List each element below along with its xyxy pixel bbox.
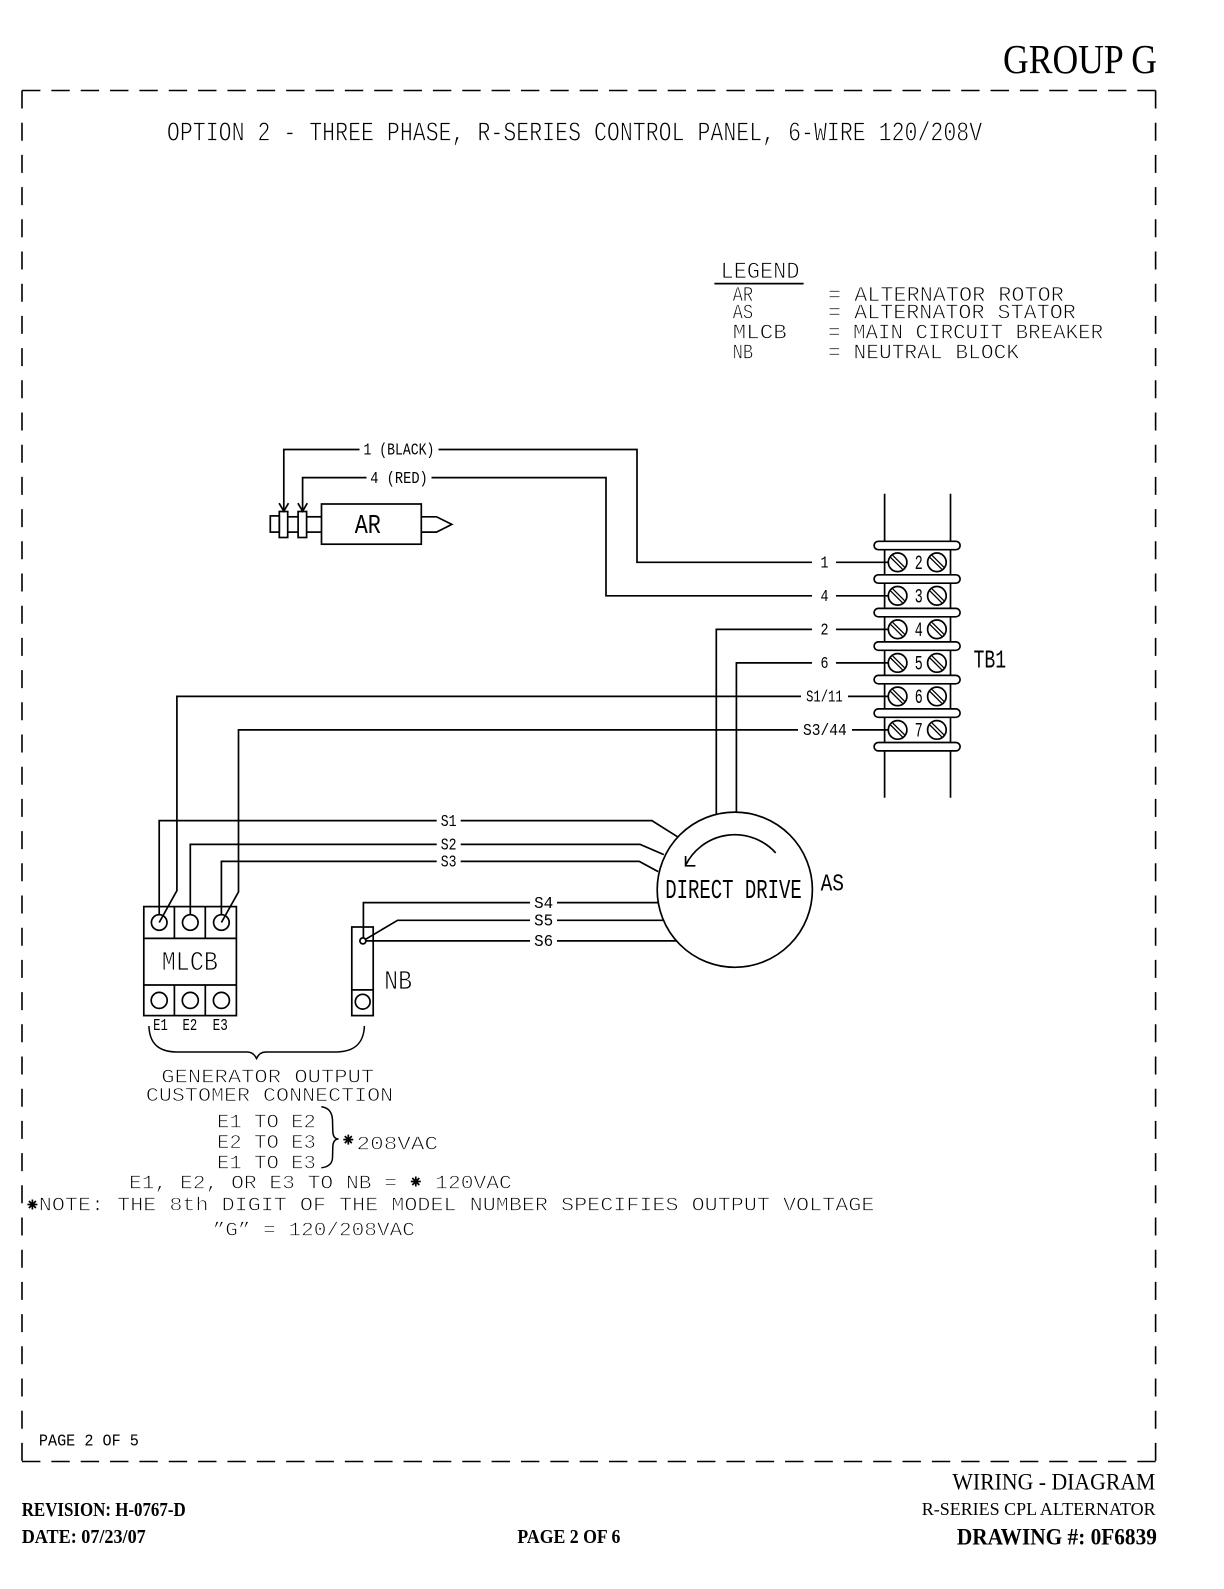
TB1 separator bar 4 — [874, 642, 960, 650]
MLCB bottom terminal E2 — [182, 992, 198, 1008]
TB1 separator bar 6 — [874, 709, 960, 717]
legend row NB — [733, 340, 1020, 365]
svg-text:DRAWING #: 0F6839: DRAWING #: 0F6839 — [957, 1525, 1157, 1551]
alternator stator AS (DIRECT DRIVE circle) — [657, 812, 812, 967]
svg-text:S5: S5 — [534, 912, 553, 931]
wire S3 from MLCB to stator — [221, 861, 658, 914]
wire S4 from NB node to stator — [363, 903, 658, 941]
wire label S3 — [437, 853, 461, 872]
svg-text:120VAC: 120VAC — [435, 1172, 512, 1194]
svg-text:GROUP G: GROUP G — [1003, 36, 1157, 82]
TB1 separator bar 7 — [874, 743, 960, 751]
TB1 separator bar 2 — [874, 575, 960, 583]
svg-text:7: 7 — [915, 720, 923, 743]
wire label S1 — [437, 812, 461, 831]
svg-text:AS: AS — [821, 872, 844, 899]
wire label S4 — [530, 894, 557, 913]
svg-text:S4: S4 — [534, 894, 553, 913]
legend row AS — [733, 300, 1076, 325]
svg-text:NB: NB — [733, 340, 754, 365]
svg-text:2: 2 — [821, 621, 829, 640]
svg-text:S3/44: S3/44 — [803, 721, 847, 740]
wire S6 from NB node to stator — [363, 940, 677, 942]
wire label 4 at TB1 — [812, 587, 836, 606]
svg-text:NOTE: THE 8th DIGIT OF THE MOD: NOTE: THE 8th DIGIT OF THE MODEL NUMBER … — [39, 1195, 875, 1217]
svg-text:DATE: 07/23/07: DATE: 07/23/07 — [22, 1526, 146, 1548]
svg-text:R-SERIES CPL ALTERNATOR: R-SERIES CPL ALTERNATOR — [922, 1499, 1156, 1519]
svg-text:4: 4 — [821, 587, 829, 606]
wire label S6 — [530, 932, 557, 951]
svg-text:E1: E1 — [153, 1016, 168, 1035]
wire label S3/44 — [798, 721, 852, 740]
wire S3/44 from TB1-7 to MLCB E3 terminal — [221, 730, 888, 923]
svg-text:E1, E2, OR E3 TO NB =: E1, E2, OR E3 TO NB = — [129, 1172, 397, 1194]
wire label 4 (RED) — [367, 469, 432, 488]
legend title LEGEND — [714, 259, 803, 285]
svg-text:LEGEND: LEGEND — [721, 259, 800, 285]
svg-text:”G” = 120/208VAC: ”G” = 120/208VAC — [213, 1220, 415, 1242]
svg-text:PAGE 2 OF 6: PAGE 2 OF 6 — [517, 1526, 620, 1548]
wire label S5 — [530, 912, 557, 931]
TB1 separator bar 3 — [874, 608, 960, 616]
svg-text:S1: S1 — [441, 812, 457, 831]
wire label 1 at TB1 — [812, 554, 836, 573]
MLCB bottom terminal E1 — [151, 992, 167, 1008]
svg-text:E1 TO E2: E1 TO E2 — [217, 1112, 316, 1134]
MLCB bottom terminal E3 — [213, 992, 229, 1008]
svg-text:TB1: TB1 — [974, 646, 1007, 676]
TB1 terminal 7 (screws and pin number) — [888, 720, 946, 743]
drawing frame (dashed border) — [22, 91, 1156, 1462]
wire 6 from TB1-5 to stator — [736, 663, 888, 812]
wire label 6 — [812, 654, 836, 673]
svg-text:E2: E2 — [183, 1016, 198, 1035]
NB node (wire junction) — [360, 938, 366, 944]
wire label 1 (BLACK) — [360, 441, 439, 460]
svg-text:6: 6 — [915, 687, 923, 710]
TB1 terminal 3 (screws and pin number) — [888, 586, 946, 609]
svg-text:REVISION: H-0767-D: REVISION: H-0767-D — [22, 1499, 186, 1521]
svg-text:DIRECT DRIVE: DIRECT DRIVE — [665, 877, 802, 907]
voltage brace } — [321, 1107, 338, 1168]
TB1 terminal 4 (screws and pin number) — [888, 620, 946, 643]
svg-text:NB: NB — [384, 968, 412, 998]
svg-text:3: 3 — [915, 586, 923, 609]
terminal block TB1 rails — [885, 494, 951, 798]
svg-text:MLCB: MLCB — [162, 949, 218, 979]
wire 4 (RED) from AR to TB1-3, with down arrow into rotor connector — [298, 478, 889, 596]
svg-text:208VAC: 208VAC — [357, 1134, 439, 1156]
wire S1/11 from TB1-6 to MLCB E1 terminal — [159, 696, 888, 922]
TB1 terminal 6 (screws and pin number) — [888, 687, 946, 710]
TB1 terminal 5 (screws and pin number) — [888, 653, 946, 676]
wire S5 from NB node to stator — [363, 920, 664, 941]
note model number line — [27, 1195, 874, 1217]
wire S1 from MLCB to stator — [159, 821, 677, 915]
svg-text:S6: S6 — [534, 932, 553, 951]
svg-text:E1 TO E3: E1 TO E3 — [217, 1153, 316, 1175]
wire label S2 — [437, 836, 461, 855]
svg-text:OPTION 2 - THREE PHASE, R-SERI: OPTION 2 - THREE PHASE, R-SERIES CONTROL… — [167, 120, 983, 150]
svg-text:5: 5 — [915, 653, 923, 676]
svg-text:= NEUTRAL BLOCK: = NEUTRAL BLOCK — [828, 340, 1019, 365]
wire 1 (BLACK) from AR to TB1-2, with down arrow into rotor connector — [279, 450, 888, 563]
wire 2 from TB1-4 to stator — [716, 629, 888, 814]
wire label S1/11 — [801, 688, 848, 707]
MLCB top terminal 3 — [214, 915, 230, 931]
svg-text:4: 4 — [915, 620, 923, 643]
svg-text:AR: AR — [355, 512, 381, 542]
MLCB top terminal 1 — [151, 915, 167, 931]
note *208VAC — [343, 1134, 438, 1156]
wire S2 from MLCB to stator — [190, 844, 664, 914]
TB1 separator bar 5 — [874, 675, 960, 683]
svg-text:WIRING - DIAGRAM: WIRING - DIAGRAM — [952, 1470, 1155, 1495]
customer connection brace — [149, 1026, 365, 1059]
neutral block NB — [352, 927, 373, 1016]
main circuit breaker MLCB — [144, 907, 237, 1016]
svg-text:S3: S3 — [441, 853, 457, 872]
svg-text:2: 2 — [915, 553, 923, 576]
note 120VAC line — [129, 1172, 512, 1194]
svg-text:1 (BLACK): 1 (BLACK) — [364, 441, 435, 460]
svg-text:4 (RED): 4 (RED) — [370, 469, 428, 488]
svg-text:CUSTOMER CONNECTION: CUSTOMER CONNECTION — [146, 1085, 393, 1107]
alternator rotor AR (connector, body box, shaft pointer) — [270, 504, 452, 544]
wire label 2 — [812, 621, 836, 640]
TB1 terminal 2 (screws and pin number) — [888, 553, 946, 576]
svg-text:E2 TO E3: E2 TO E3 — [217, 1132, 316, 1154]
TB1 separator bar 1 — [874, 541, 960, 549]
MLCB top terminal 2 — [183, 915, 199, 931]
rotation arrow arc — [685, 835, 775, 866]
svg-text:S1/11: S1/11 — [806, 688, 843, 707]
svg-text:6: 6 — [821, 654, 829, 673]
svg-text:E3: E3 — [213, 1016, 228, 1035]
legend row AR — [733, 283, 1064, 308]
svg-text:1: 1 — [821, 554, 829, 573]
svg-text:PAGE 2 OF 5: PAGE 2 OF 5 — [39, 1432, 139, 1451]
legend row MLCB — [733, 320, 1104, 345]
